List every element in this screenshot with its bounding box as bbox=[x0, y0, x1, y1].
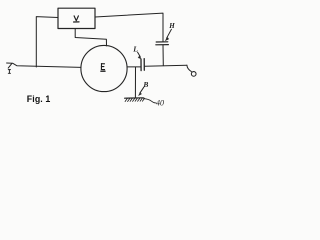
svg-text:Fig. 1: Fig. 1 bbox=[27, 94, 51, 104]
svg-text:B: B bbox=[142, 80, 148, 89]
svg-text:H: H bbox=[168, 22, 175, 30]
svg-text:40: 40 bbox=[156, 99, 164, 108]
svg-text:L: L bbox=[132, 44, 138, 53]
